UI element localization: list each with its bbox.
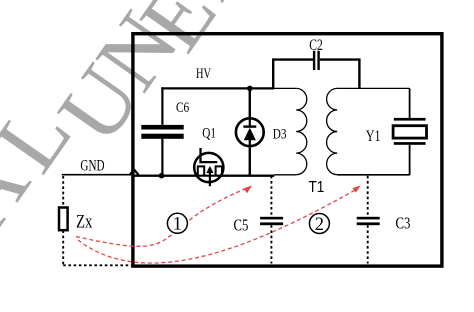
capacitor C6 bbox=[141, 125, 183, 139]
transformer T1 primary winding bbox=[296, 88, 307, 174]
red arrowhead 2 bbox=[352, 185, 360, 193]
wire HV rail bbox=[161, 87, 274, 89]
ground caret at box edge bbox=[130, 170, 139, 175]
crystal Y1 bbox=[393, 118, 426, 145]
svg-text:D3: D3 bbox=[273, 125, 287, 142]
red arrowhead 1 bbox=[244, 186, 253, 194]
wire dotted Zx upper bbox=[62, 176, 64, 207]
wire C6 bottom lead bbox=[161, 139, 163, 176]
node marker 1 (circled 1) bbox=[167, 213, 187, 234]
node HV junction dot bbox=[247, 86, 253, 92]
wire GND external lead bbox=[62, 174, 131, 176]
transformer T1 secondary winding bbox=[327, 88, 338, 174]
svg-text:C6: C6 bbox=[176, 99, 189, 116]
node C6/GND junction dot bbox=[159, 173, 165, 179]
svg-text:Q1: Q1 bbox=[202, 124, 216, 141]
resistor Zx bbox=[59, 208, 68, 231]
wire dotted Zx lower bbox=[62, 230, 64, 265]
wire D3 vertical bbox=[249, 88, 251, 175]
wire dotted bottom return bbox=[63, 264, 131, 266]
red feedback path 2 bbox=[78, 189, 357, 263]
capacitor C3 bbox=[357, 217, 380, 225]
wire C6 top lead bbox=[161, 87, 163, 125]
wire Y1 bottom lead bbox=[409, 145, 411, 175]
svg-text:Zx: Zx bbox=[76, 211, 93, 232]
svg-text:C5: C5 bbox=[234, 217, 249, 235]
wire dotted C5 lower bbox=[270, 225, 272, 263]
svg-text:T1: T1 bbox=[309, 179, 325, 196]
diode D3 bbox=[236, 88, 264, 175]
wire secondary top link bbox=[337, 87, 409, 89]
svg-text:C2: C2 bbox=[309, 37, 323, 54]
capacitor C2 bbox=[313, 51, 320, 70]
svg-text:Y1: Y1 bbox=[366, 127, 381, 145]
red feedback path 1 bbox=[76, 187, 251, 247]
capacitor C5 bbox=[260, 217, 283, 225]
svg-text:C3: C3 bbox=[396, 215, 411, 233]
svg-text:1: 1 bbox=[173, 215, 182, 235]
wire secondary bottom link bbox=[337, 174, 409, 176]
wire C2 right riser bbox=[320, 60, 360, 89]
enclosure box bbox=[133, 34, 442, 266]
wire dotted C3 upper bbox=[367, 176, 369, 217]
watermark bbox=[0, 0, 276, 247]
wire dotted C5 upper bbox=[270, 176, 272, 217]
wire dotted C3 lower bbox=[367, 225, 369, 263]
svg-text:GND: GND bbox=[80, 157, 104, 174]
svg-text:2: 2 bbox=[315, 215, 324, 235]
transistor Q1 (MOSFET) bbox=[134, 148, 274, 186]
wire Y1 top lead bbox=[409, 88, 411, 118]
wire GND rail bbox=[134, 175, 274, 177]
svg-text:HV: HV bbox=[196, 65, 211, 81]
wire primary bottom link bbox=[274, 174, 296, 176]
wire C2 left riser bbox=[273, 60, 313, 89]
wire primary top link bbox=[273, 87, 296, 89]
node marker 2 (circled 2) bbox=[309, 214, 329, 235]
